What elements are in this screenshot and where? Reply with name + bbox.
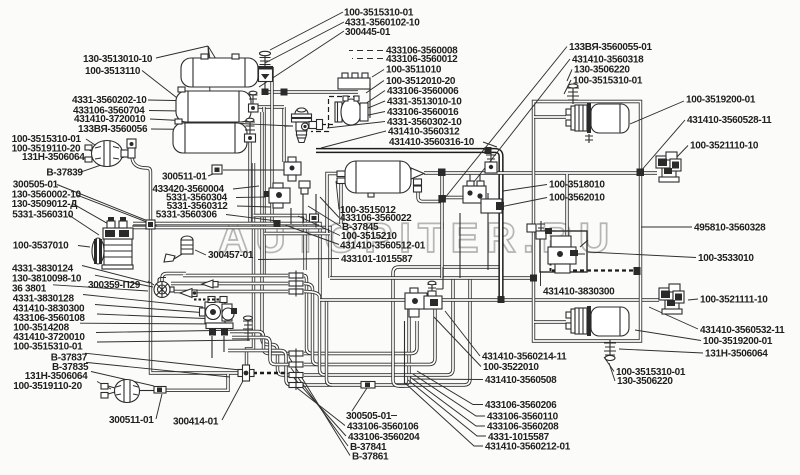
safety valve on reservoir R1 [259, 51, 273, 95]
pipe reservoir2 to regulator y=111 [257, 105, 284, 108]
pipe vertical x=488 [487, 193, 489, 270]
alcohol pump 300457-01 [164, 236, 193, 262]
junction x=533.5 y=278 [530, 275, 537, 282]
hose dashes at brake valve [194, 299, 220, 301]
svg-text:100-3515310-01: 100-3515310-01 [573, 75, 643, 86]
leader 433106-3560208 [410, 377, 485, 426]
leader 5331-3560304 [236, 196, 266, 199]
spring valve near brake valve [243, 316, 253, 341]
leader 433106-3560704 [149, 111, 249, 113]
small valve end of thick pipe [485, 152, 497, 173]
spring brake chamber top [566, 103, 629, 143]
leader 433420-3560004 [233, 186, 259, 189]
junction x=442 on pipe y=172 [438, 169, 446, 177]
pipe L-bend row2 [304, 302, 435, 365]
leader V-37837 [85, 353, 240, 370]
pipe compressor outlet [132, 225, 150, 227]
pipe vertical x=564 valve feed [565, 174, 568, 236]
quad fitting column [289, 349, 303, 391]
stubs from valves down to bundle [291, 182, 316, 228]
leader 100-3519200-01 [630, 101, 684, 124]
svg-text:100-3562010: 100-3562010 [549, 193, 605, 204]
svg-text:431410-3560528-11: 431410-3560528-11 [687, 115, 772, 126]
reservoir R4 center [337, 161, 424, 197]
svg-text:431410-3560316-10: 431410-3560316-10 [389, 137, 475, 148]
leader 100-3511010 [372, 70, 384, 78]
pipe left vertical pair x=150.5 down to cross [132, 156, 238, 373]
regulator left stub and dashed hose [284, 125, 293, 127]
leader 431410-3560508 [412, 378, 483, 381]
svg-text:431410-3830300: 431410-3830300 [543, 287, 615, 298]
leader top labels to safety valve [270, 12, 343, 50]
leader 431410-3720010 lower [96, 330, 243, 333]
leader 433106-3560108 [97, 314, 217, 319]
leader V-37839 [80, 156, 127, 172]
leader 300359-P29 [148, 281, 154, 285]
svg-text:100-3519110-20: 100-3519110-20 [13, 381, 82, 392]
leader 431410-3560312 [321, 131, 386, 148]
leader 431410-3560214-11 [445, 311, 480, 356]
leader 131N-3506064 lower [91, 372, 154, 387]
pipe L-bend to fitting row1 [304, 321, 417, 354]
leader 100-3514208 [80, 322, 223, 325]
leader 431410-3560532-11 [649, 307, 698, 329]
junction x=488 on pipe y=150 [485, 147, 492, 154]
fittings on frame edge near 3533010 [527, 221, 556, 239]
leader V-37841 [291, 368, 348, 446]
pipe y=300 long to right valve [320, 298, 659, 301]
svg-text:433106-3560106: 433106-3560106 [347, 422, 419, 433]
svg-text:131Н-3506064: 131Н-3506064 [705, 348, 768, 359]
pipe L-bend row3 [304, 279, 453, 375]
svg-text:100-3521111-10: 100-3521111-10 [700, 295, 768, 306]
cross fitting 300414-01 [238, 365, 254, 381]
svg-text:100-3515310-01: 100-3515310-01 [13, 342, 83, 353]
pipe from reservoir4 left fitting down [339, 184, 342, 224]
svg-text:130-3509012-Д: 130-3509012-Д [12, 199, 78, 210]
junction x=442 on pipe y=190 [438, 195, 446, 203]
brake chamber front left [85, 141, 128, 167]
junction x=284 y=92 [281, 89, 288, 96]
spring symbol above top chamber [567, 84, 579, 104]
leader 300505-01 bottom [352, 388, 397, 416]
leader 100-3515310-01 left [86, 139, 98, 147]
leader 100-3518010 [503, 185, 547, 192]
two-pointer pressure gauge [154, 282, 174, 298]
triple fitting column [289, 271, 303, 297]
svg-text:431410-3560508: 431410-3560508 [485, 375, 557, 386]
fitting below bottom chamber [604, 340, 616, 361]
svg-text:100-3533010: 100-3533010 [698, 253, 754, 264]
leader 130-3509012-D [73, 204, 133, 238]
pipe y=275.5 center left [162, 274, 312, 354]
valve 100-3533010 [548, 236, 588, 273]
leader 431410-3560212-01 [405, 383, 483, 446]
pipe y=335 short [232, 338, 290, 365]
pipe y=283 center left [171, 284, 318, 365]
pressure regulator x=292 [292, 108, 323, 143]
spring brake chamber bottom [566, 306, 629, 336]
svg-text:130-3513010-10: 130-3513010-10 [83, 54, 153, 65]
leader V-37835 [86, 362, 230, 377]
coupling on pipe bundle [310, 214, 319, 222]
pipe vertical x=460 [459, 213, 461, 278]
leader 4331-3560202-10 [148, 100, 251, 102]
pipe vertical x=253.5 long down [247, 163, 254, 365]
valve 100-3521110-10 [656, 152, 681, 182]
junction on dashed hose right end [634, 267, 641, 275]
svg-text:133ВЯ-3560055-01: 133ВЯ-3560055-01 [569, 42, 652, 53]
brake valve assembly [194, 297, 237, 336]
svg-text:431410-3560212-01: 431410-3560212-01 [485, 442, 571, 453]
elbow fitting x=297 y=182 [299, 181, 310, 194]
leader 5331-3560312 [237, 206, 271, 207]
leader 100-3515310-01 bottom right [604, 357, 614, 372]
hose connector 131N [154, 387, 166, 394]
pipe y=291.5 center left third row [174, 292, 325, 376]
spring fitting on 3560214 valve [428, 267, 444, 293]
leader 431410-3830300 left [95, 305, 208, 314]
leader 130-3506220 top right [567, 70, 572, 82]
svg-text:4331-3513010-10: 4331-3513010-10 [387, 97, 462, 108]
pipe vertical x=270 [248, 140, 251, 224]
leader 431410-3560318 [463, 59, 570, 196]
pipe vertical x=274 long [262, 107, 265, 276]
leader 4331-3830128 [83, 295, 203, 308]
leader 100-3515012 [336, 181, 339, 210]
reservoir R2 [176, 87, 251, 122]
leader 5331-3560306 [226, 215, 277, 222]
pipe y=278 center to right circuit [330, 276, 534, 279]
leader 133VYa-3560056 [151, 129, 252, 130]
pipe from reservoir1 area along y=91 [266, 90, 358, 93]
leader 5331-3560310 [68, 215, 99, 236]
pipe vertical x=395 [393, 267, 501, 386]
cone fitting [180, 280, 218, 298]
elbow fitting V-37839 [127, 139, 136, 158]
reservoir R1 top [181, 54, 258, 87]
pipe y=215.5 with bend down x=311 [254, 216, 306, 271]
leader 495810-3560328 [641, 226, 692, 228]
pipe from reservoir4 outlet down to junction [418, 192, 442, 202]
hose dashes right of cross [253, 372, 288, 374]
drain valve with spring on reservoir R3 [245, 118, 256, 142]
leader V-37845 [308, 206, 341, 227]
svg-text:130-3506220: 130-3506220 [617, 376, 673, 387]
svg-text:131Н-3506064: 131Н-3506064 [22, 152, 85, 163]
junction coupling near compressor [146, 220, 155, 229]
leader 433106-3560110 [413, 374, 485, 416]
svg-text:5331-3560306: 5331-3560306 [156, 210, 218, 221]
leader 433106-3560022 [320, 197, 339, 218]
leader 100-3519200-01 lower [635, 330, 701, 341]
svg-text:433106-3560206: 433106-3560206 [485, 400, 557, 411]
leader 300511-01 bottom [156, 394, 162, 419]
leader 433106-3560206 [417, 371, 483, 405]
pipe vertical x=442 from y=172 to y=278 [440, 172, 443, 278]
pipe y=223 from compressor to x=320 down [133, 224, 320, 301]
leader 300505-01 left [57, 185, 148, 222]
pipe descending x=326.5 to row4 [327, 299, 333, 385]
leader 433106-3560006 [356, 91, 385, 111]
leader V-37861 [289, 357, 350, 456]
brake chamber center top [335, 96, 368, 125]
leader 100-3513110 [142, 71, 181, 102]
svg-text:100-3513110: 100-3513110 [85, 66, 141, 77]
leader 4331-3830124 [82, 266, 150, 284]
leader 431410-3720010 top [150, 119, 291, 126]
leader 4331-1015587 [408, 380, 486, 436]
leader 431410-3560512-01 [285, 225, 339, 245]
leader fan from 130-3513010-10 to reservoirs [156, 46, 219, 118]
leader 100-3519110-20 left [86, 148, 95, 153]
leader 433101-1015587 [258, 259, 339, 260]
pipe feed F1 from brake valve to nipple1 [230, 332, 290, 354]
leader 100-3522010 [434, 317, 481, 367]
pipe stubs H4 to valve 3518010 [470, 174, 480, 186]
svg-text:495810-3560328: 495810-3560328 [694, 223, 766, 234]
svg-text:300414-01: 300414-01 [173, 417, 219, 428]
brake chamber bottom left [101, 380, 154, 403]
reservoir R3 [173, 119, 247, 153]
sub frame around 3533010 valve [540, 231, 587, 272]
pipe to bottom spring chamber [534, 320, 566, 323]
junction x=274 y=223 [274, 220, 281, 227]
air valve above chamber [338, 73, 370, 118]
svg-text:300445-01: 300445-01 [345, 27, 391, 38]
pipe y=233.5 [264, 232, 330, 235]
svg-text:300505-01: 300505-01 [346, 411, 392, 422]
leader 4331-3560302-10 [327, 122, 385, 129]
leader 130-3810098-10 [95, 275, 153, 287]
leader 36 3801 [53, 285, 148, 291]
pipe L-bend row4 [305, 279, 470, 385]
leader 433106-3560106 [297, 388, 345, 426]
leader 100-3515310-01 right [564, 80, 571, 94]
leader 300414-01 [222, 379, 244, 420]
leader 130-3560002-10 [76, 195, 157, 226]
svg-text:300511-01: 300511-01 [109, 415, 154, 426]
leader 431410-3560528-11 [640, 120, 685, 172]
leader 100-3537010 [78, 246, 90, 248]
svg-text:431410-3560214-11: 431410-3560214-11 [482, 352, 567, 363]
pipe vertical x=327 [327, 174, 337, 234]
pipe y=227 to x=330 down to y=278 [133, 228, 330, 279]
valve 431410-3560214 assembly [405, 288, 442, 317]
leader 133VYa-3560055-01 [444, 47, 567, 200]
pipe vertical x=284 to mid valve [282, 107, 285, 162]
connector 300505-01 bottom [361, 382, 375, 389]
fitting on reservoir R2 [249, 91, 259, 112]
pipe to top spring chamber [534, 115, 566, 118]
pipe feed F4 [228, 351, 305, 386]
compressor [92, 217, 133, 269]
pipe vertical x=404.5 [404, 321, 406, 384]
leader 131N-3506064 left [86, 157, 98, 160]
leader 100-3533010 [588, 252, 696, 258]
leader 300511-01 upper [208, 174, 213, 176]
pipe vertical x=258.5 [262, 112, 290, 375]
valve 100-3518010 [463, 181, 504, 213]
svg-text:300359-П29: 300359-П29 [88, 280, 141, 291]
leader 100-3562010 [500, 198, 547, 208]
svg-text:431410-3560512-01: 431410-3560512-01 [340, 241, 426, 252]
leader 433106-3560016 [341, 112, 385, 122]
svg-text:В-37861: В-37861 [352, 452, 389, 463]
svg-text:100-3522010: 100-3522010 [483, 362, 539, 373]
svg-text:100-3521110-10: 100-3521110-10 [690, 141, 759, 152]
svg-text:100-3518010: 100-3518010 [549, 180, 605, 191]
pipe y=190 under reservoir4 [442, 196, 463, 199]
leader 300457-01 [195, 250, 206, 255]
pipe vertical x=264 to triple fitting [270, 67, 273, 224]
svg-text:100-3519200-01: 100-3519200-01 [703, 336, 773, 347]
svg-text:100-3519200-01: 100-3519200-01 [686, 94, 756, 105]
leader 100-3515210 [298, 216, 340, 236]
regulator lower 433420 [264, 183, 290, 208]
svg-text:300511-01: 300511-01 [162, 172, 207, 183]
svg-text:5331-3560310: 5331-3560310 [12, 210, 74, 221]
valve 100-3521111-10 [659, 284, 684, 314]
leader 4331-3513010-10 [349, 101, 385, 116]
leader 433106-3560204 [294, 378, 346, 436]
leader 100-3521110-10 [674, 146, 688, 161]
svg-text:130-3506220: 130-3506220 [574, 65, 630, 76]
junction x=640 on pipe y=172 [637, 169, 645, 177]
junction x=501 y=299 [498, 296, 505, 303]
leader 100-3512010-20 [366, 81, 384, 94]
leader 100-3515310-01 lower [97, 340, 250, 342]
leader 100-3519110-20 lower [97, 382, 111, 390]
pipe rectangle right circuit [534, 102, 641, 342]
svg-text:431410-3560312: 431410-3560312 [388, 127, 460, 138]
stubs below brake valve [212, 336, 224, 358]
svg-text:300457-01: 300457-01 [208, 250, 254, 261]
leader 431410-3830300 right [540, 271, 542, 286]
dashed contour around optional chamber [311, 97, 358, 132]
svg-text:В-37839: В-37839 [46, 167, 83, 178]
svg-text:133ВЯ-3560056: 133ВЯ-3560056 [78, 124, 148, 135]
svg-text:100-3511010: 100-3511010 [386, 65, 442, 76]
hose dashed vertical left of 3533010 valve [550, 257, 552, 271]
leader 130-3506220 bottom right [609, 363, 615, 381]
leader dashes 433106-3560008/12 [349, 50, 383, 52]
svg-text:433106-3560012: 433106-3560012 [386, 54, 458, 65]
svg-text:433106-3560208: 433106-3560208 [487, 422, 559, 433]
hose coupling 300511-01 [212, 165, 284, 174]
pipe bottom chamber line y=386.5 [166, 374, 228, 390]
svg-text:4331-3560202-10: 4331-3560202-10 [72, 95, 147, 106]
svg-text:433101-1015587: 433101-1015587 [341, 254, 413, 265]
pipe thick y=150.5 [316, 151, 501, 300]
pipe y=172 reservoir4 to right valve [424, 171, 657, 174]
leader 100-3521111-10 [688, 299, 698, 300]
leader 131N-3506064 right [619, 349, 703, 353]
svg-text:431410-3560532-11: 431410-3560532-11 [700, 325, 785, 336]
svg-text:433106-3560006: 433106-3560006 [387, 86, 459, 97]
hose dashed y=270.5 right [552, 269, 640, 271]
mid valve x=284 [284, 157, 301, 181]
svg-text:100-3537010: 100-3537010 [13, 241, 69, 252]
leader 431410-3560316-10 [483, 142, 497, 147]
pipe y=383.5 bottom center to bend x=409 [399, 302, 409, 386]
